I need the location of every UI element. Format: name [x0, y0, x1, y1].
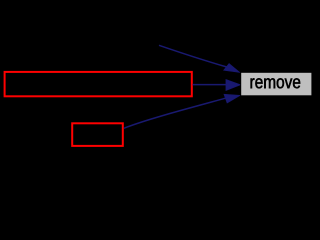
wire: edge from hidden top node to remove	[159, 45, 226, 67]
wire: edge from big red box to remove	[193, 84, 227, 86]
node: remove (current function, grey)	[241, 72, 312, 96]
arrowhead: edge 3	[224, 94, 240, 103]
node: truncated caller box 2 (small red-bordered)	[72, 123, 123, 146]
wire: edge from small red box to remove	[124, 98, 226, 128]
node: truncated caller box 1 (large red-bordered)	[5, 72, 192, 96]
label: remove	[251, 78, 301, 88]
arrowhead: edge 1	[224, 64, 240, 73]
arrowhead: edge 2	[226, 79, 241, 90]
